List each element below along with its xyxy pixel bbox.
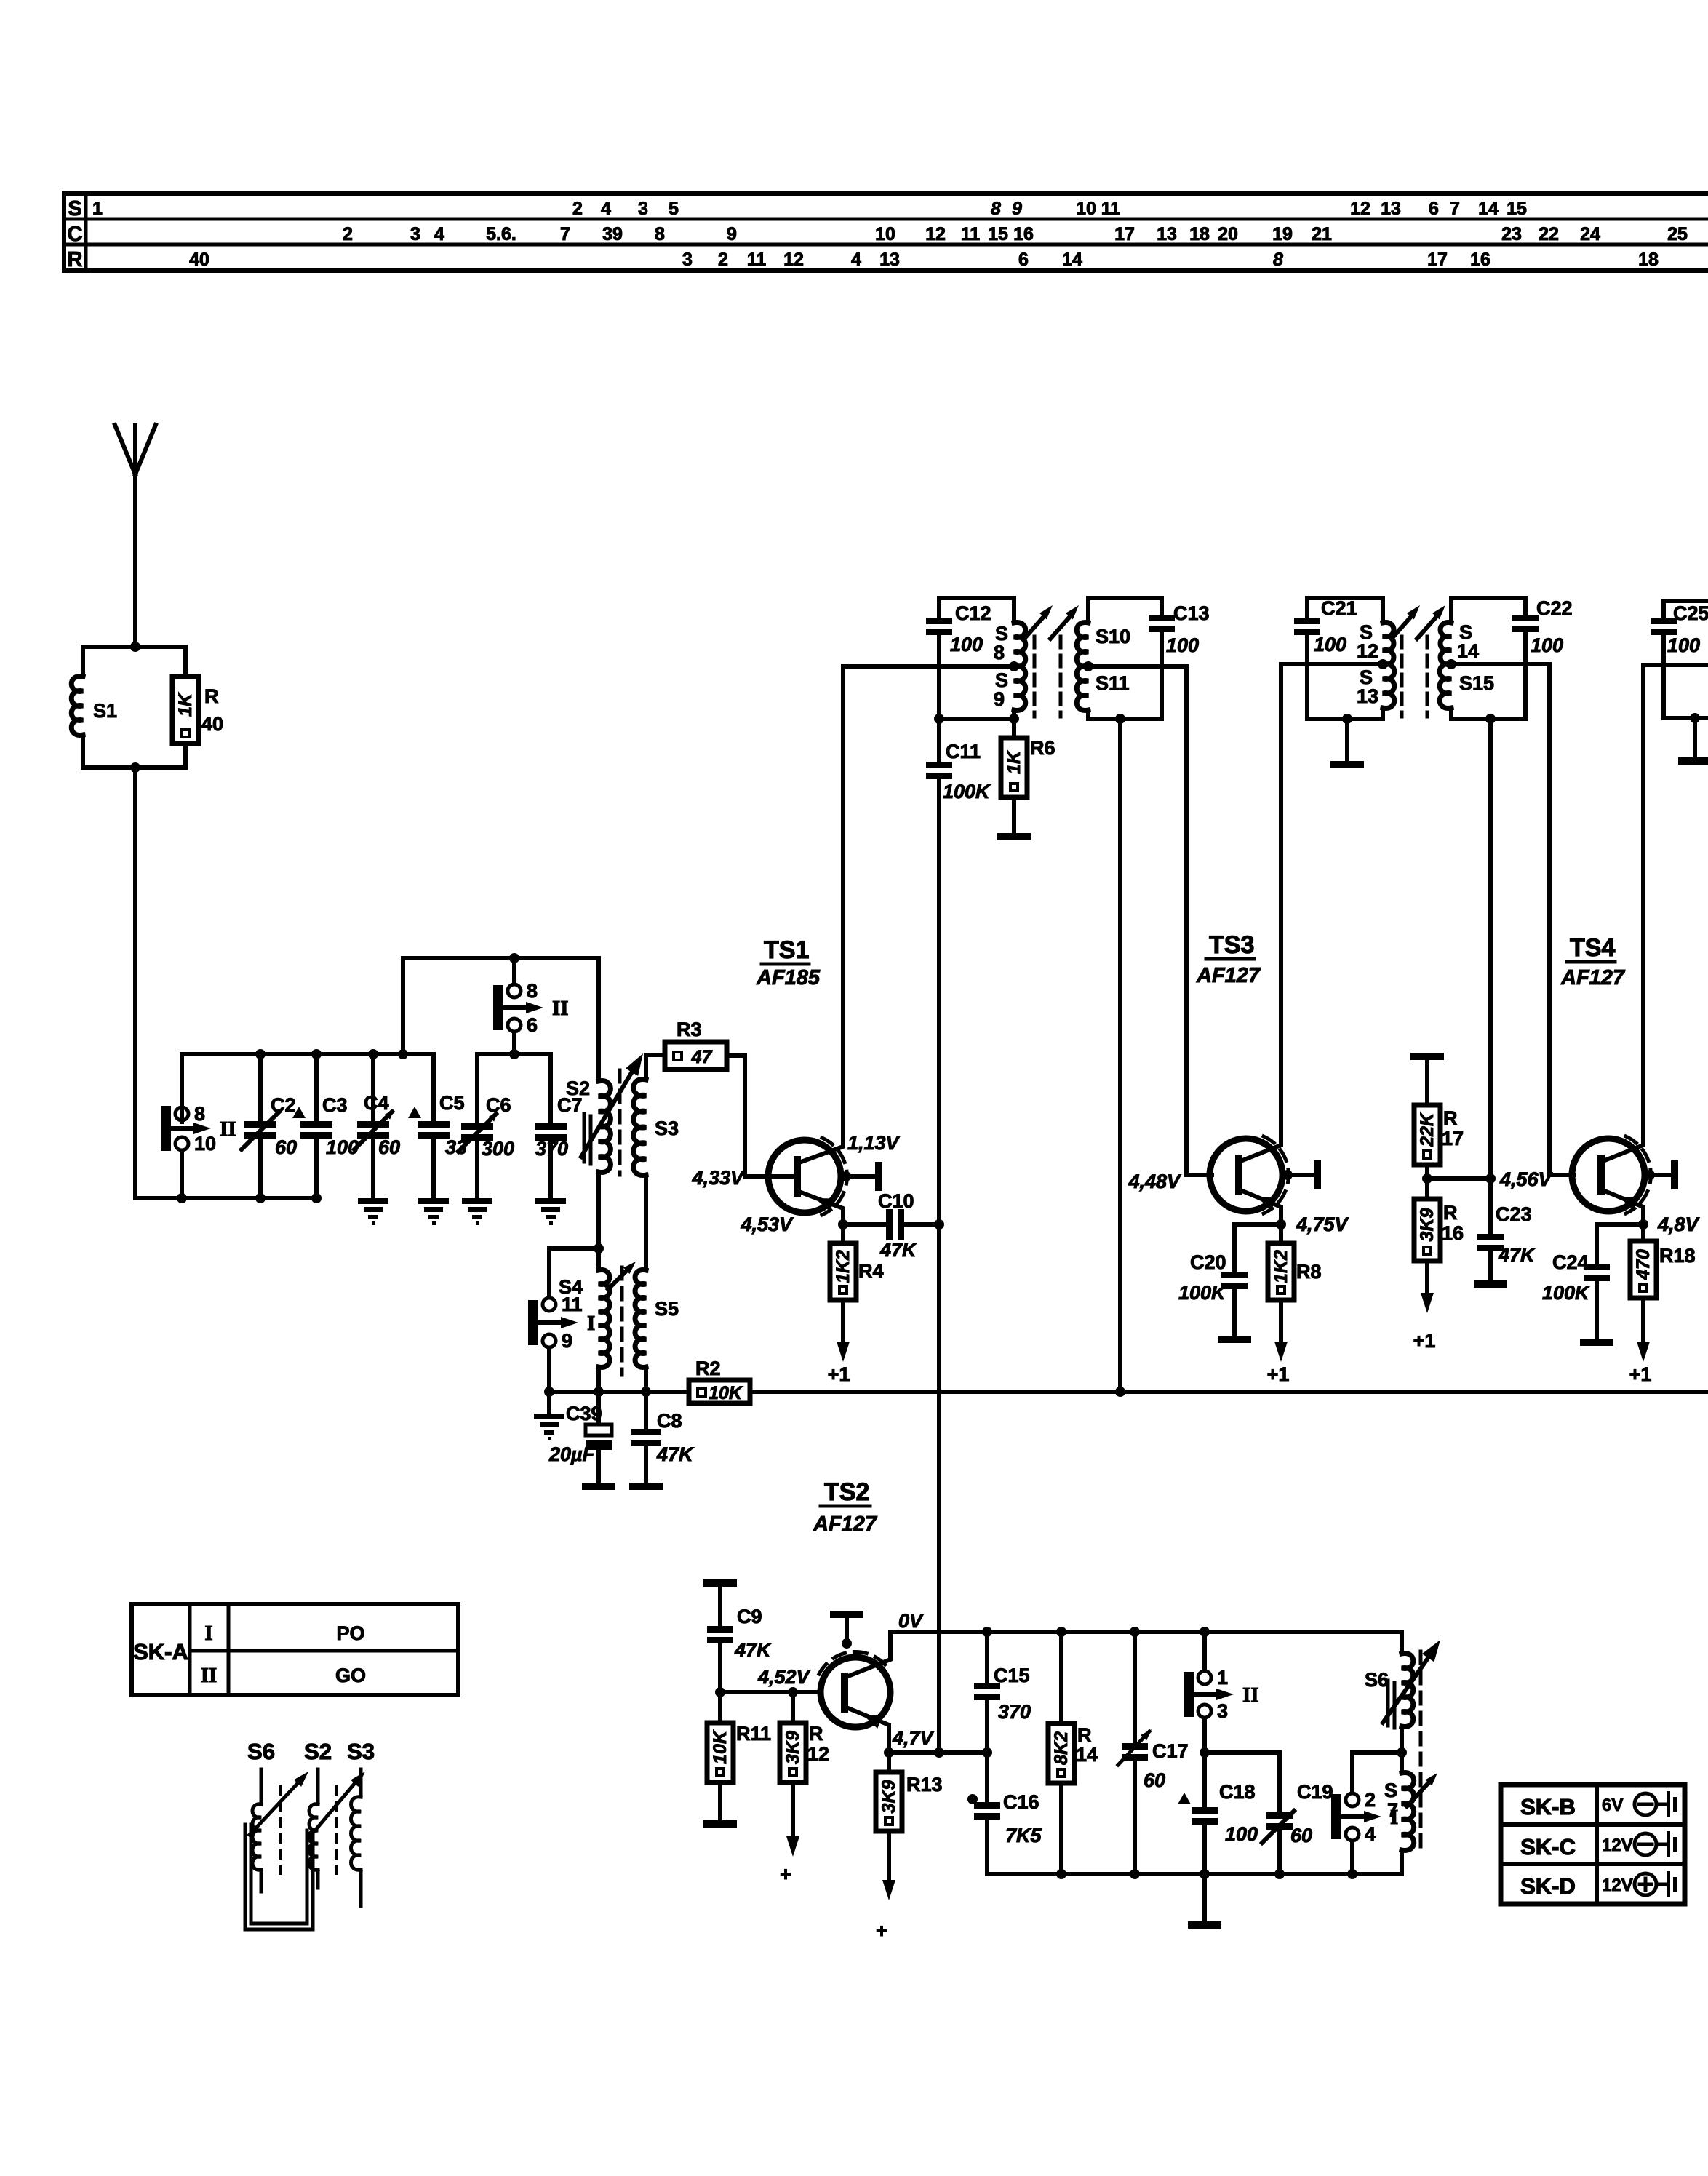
wire tap to TS3 collector	[1281, 662, 1383, 666]
switch SK-A contacts 2/4 (I)	[1331, 1794, 1341, 1839]
svg-text:47K: 47K	[656, 1443, 695, 1465]
svg-text:C24: C24	[1552, 1251, 1589, 1273]
svg-text:GO: GO	[335, 1665, 366, 1686]
svg-text:4: 4	[434, 224, 444, 244]
TS3 collector	[1239, 664, 1281, 1162]
node S14/S15 tap	[1446, 659, 1456, 669]
coil S2	[596, 958, 601, 1081]
svg-text:5: 5	[669, 199, 679, 219]
node C16 top	[982, 1747, 992, 1758]
svg-text:12: 12	[925, 224, 946, 244]
node bus-S11 junction	[1115, 1387, 1125, 1397]
svg-text:AF185: AF185	[756, 966, 821, 989]
gang coil S6	[260, 1769, 263, 1804]
svg-text:4,48V: 4,48V	[1128, 1171, 1181, 1192]
svg-text:S3: S3	[347, 1739, 375, 1764]
svg-text:60: 60	[378, 1136, 400, 1158]
node ground junction 9	[544, 1387, 554, 1397]
wire emitter node	[889, 1750, 987, 1755]
svg-text:1K2: 1K2	[833, 1250, 853, 1283]
gang arrow S2	[311, 1780, 358, 1835]
ground under C4	[358, 1198, 388, 1204]
capacitor C13	[1160, 598, 1164, 615]
svg-text:7: 7	[560, 224, 570, 244]
capacitor C22	[1523, 598, 1528, 615]
svg-text:16: 16	[1442, 1222, 1464, 1244]
svg-text:4,8V: 4,8V	[1657, 1213, 1700, 1235]
wire IF2 secondary top	[1451, 596, 1525, 600]
svg-text:5.6.: 5.6.	[486, 224, 516, 244]
node C15 top	[982, 1627, 992, 1637]
coil S10	[1086, 598, 1090, 623]
IF2 core dashed	[1400, 637, 1404, 717]
svg-text:+1: +1	[1267, 1363, 1290, 1385]
node S11 bottom junction	[1115, 714, 1125, 724]
resistor R6	[1012, 719, 1016, 738]
svg-text:25: 25	[1667, 224, 1688, 244]
arrow through S6	[1383, 1653, 1432, 1723]
chassis under C18	[1202, 1874, 1207, 1921]
wire IF1 primary bottom	[939, 717, 1014, 721]
wire IF3 bottom	[1664, 716, 1708, 720]
svg-text:8: 8	[991, 199, 1001, 219]
wire to C23	[1427, 1176, 1490, 1181]
node S8/S9 tap	[1009, 661, 1019, 671]
node R6 top	[1009, 714, 1019, 724]
svg-text:PO: PO	[336, 1622, 364, 1644]
svg-text:R: R	[809, 1723, 823, 1745]
svg-text:11: 11	[961, 224, 981, 244]
svg-text:2: 2	[343, 224, 353, 244]
svg-text:S11: S11	[1096, 672, 1130, 694]
node C17 top	[1130, 1627, 1140, 1637]
svg-text:TS1: TS1	[764, 936, 809, 964]
node switch1 top	[1200, 1627, 1210, 1637]
capacitor C25	[1661, 601, 1666, 618]
svg-text:10: 10	[1076, 199, 1096, 219]
svg-text:S3: S3	[655, 1117, 679, 1139]
coil S1	[71, 677, 83, 736]
svg-text:8: 8	[527, 980, 538, 1002]
coil S7	[1402, 1773, 1414, 1851]
svg-text:23: 23	[1501, 224, 1522, 244]
svg-text:40: 40	[201, 713, 223, 735]
svg-text:C8: C8	[657, 1410, 682, 1432]
svg-text:R: R	[68, 248, 83, 271]
svg-text:I: I	[204, 1622, 212, 1645]
svg-text:15: 15	[1507, 199, 1527, 219]
svg-text:16: 16	[1013, 224, 1034, 244]
svg-text:C25: C25	[1673, 602, 1708, 624]
svg-text:39: 39	[602, 224, 623, 244]
svg-text:TS4: TS4	[1570, 934, 1615, 962]
svg-text:AF127: AF127	[1196, 964, 1261, 987]
wire IF1 secondary bottom	[1088, 717, 1162, 721]
transistor TS1	[768, 1140, 841, 1213]
svg-text:2: 2	[718, 250, 728, 270]
coil S4	[596, 1248, 601, 1270]
node IF2 ground tap	[1342, 714, 1352, 724]
svg-text:47: 47	[691, 1047, 713, 1067]
svg-text:12: 12	[783, 250, 804, 270]
node switch3 bottom	[1200, 1747, 1210, 1758]
switch SK-A contacts 11/9 (I)	[528, 1300, 538, 1345]
svg-text:I: I	[587, 1312, 595, 1335]
node IF3 ground tap	[1690, 713, 1700, 723]
coil S8	[1012, 598, 1016, 623]
svg-text:0V: 0V	[898, 1610, 924, 1632]
svg-text:S1: S1	[93, 700, 117, 722]
svg-text:C9: C9	[737, 1606, 762, 1627]
svg-text:100K: 100K	[943, 781, 991, 802]
svg-text:7: 7	[1450, 199, 1460, 219]
svg-text:6: 6	[527, 1014, 538, 1036]
wire C11 line to TS2 emitter node	[937, 1224, 941, 1753]
svg-text:AF127: AF127	[1560, 966, 1626, 989]
component location table	[64, 191, 1708, 196]
svg-text:II: II	[201, 1664, 218, 1687]
table SK-B/C/D	[1501, 1785, 1685, 1904]
svg-text:40: 40	[189, 250, 209, 270]
node C10 right junction	[934, 1219, 944, 1230]
svg-text:C6: C6	[486, 1094, 511, 1116]
svg-text:14: 14	[1062, 250, 1082, 270]
svg-text:60: 60	[1144, 1769, 1165, 1791]
svg-text:II: II	[552, 997, 569, 1020]
capacitor C6	[475, 1054, 479, 1123]
svg-text:22K: 22K	[1417, 1112, 1437, 1147]
capacitor C3	[314, 1054, 319, 1121]
wire tap to TS1 collector	[843, 664, 1014, 669]
svg-text:100K: 100K	[1178, 1282, 1227, 1304]
wire S11 bottom to +1 bus	[1118, 719, 1122, 1392]
svg-text:C11: C11	[946, 741, 981, 762]
svg-text:R: R	[1077, 1724, 1092, 1746]
wire 0V line	[890, 1630, 1402, 1634]
+1 arrow under R4	[841, 1300, 845, 1347]
svg-text:R4: R4	[858, 1260, 884, 1282]
node TS3 emitter junction	[1276, 1219, 1286, 1230]
coil S9	[1014, 666, 1026, 711]
coil S15	[1440, 664, 1451, 709]
node S4 bottom junction	[594, 1387, 604, 1397]
TS3 emitter	[1239, 1189, 1281, 1224]
TS1 collector	[797, 666, 843, 1163]
svg-text:3K9: 3K9	[783, 1731, 803, 1764]
node TS1 emitter junction	[838, 1219, 848, 1230]
svg-text:+: +	[876, 1920, 887, 1942]
svg-text:C3: C3	[322, 1094, 348, 1116]
svg-text:11: 11	[747, 250, 767, 270]
wire IF1 secondary top	[1088, 596, 1162, 600]
svg-text:C16: C16	[1003, 1791, 1039, 1813]
wire +1 bus	[750, 1390, 1708, 1394]
node S12/S13 tap	[1378, 659, 1388, 669]
svg-text:SK-B: SK-B	[1520, 1794, 1576, 1820]
wire oscillator bottom bus	[987, 1872, 1402, 1876]
svg-text:SK-A: SK-A	[133, 1639, 188, 1665]
transistor TS3	[1186, 1173, 1212, 1177]
svg-text:13: 13	[1381, 199, 1401, 219]
antenna	[133, 426, 137, 647]
svg-text:4: 4	[851, 250, 861, 270]
wire front-end bottom bus	[135, 1196, 316, 1200]
+ arrow under R12	[791, 1782, 795, 1842]
wire S15 bottom to C23	[1488, 719, 1493, 1179]
svg-text:S10: S10	[1096, 626, 1130, 647]
TS1 shield chassis	[841, 1171, 851, 1181]
svg-text:4: 4	[1365, 1823, 1376, 1845]
capacitor C17	[1133, 1632, 1137, 1743]
svg-text:3: 3	[1217, 1700, 1228, 1722]
core of S6	[1386, 1681, 1390, 1726]
node R17/R16 junction	[1425, 1165, 1429, 1199]
chassis above C9	[703, 1579, 737, 1587]
wire junction to switch 11	[549, 1248, 599, 1296]
transistor TS2	[821, 1657, 890, 1727]
svg-text:17: 17	[1114, 224, 1135, 244]
svg-text:10: 10	[194, 1133, 216, 1155]
svg-text:4,53V: 4,53V	[740, 1213, 794, 1235]
svg-text:S5: S5	[655, 1298, 679, 1320]
TS3 shield chassis	[1282, 1170, 1293, 1180]
switch SK-A contacts 8/6 (II)	[493, 985, 503, 1030]
svg-text:12: 12	[807, 1743, 829, 1765]
resistor R13	[887, 1753, 891, 1772]
svg-text:S4: S4	[559, 1276, 583, 1298]
svg-text:21: 21	[1312, 224, 1332, 244]
capacitor C2	[258, 1054, 263, 1121]
svg-text:S6: S6	[247, 1739, 275, 1764]
svg-text:100: 100	[950, 634, 983, 655]
gang coil S3	[359, 1769, 363, 1797]
resistor R2	[646, 1390, 689, 1394]
TS2 shield dashed arc	[819, 1651, 887, 1674]
svg-text:3: 3	[638, 199, 648, 219]
svg-text:4: 4	[601, 199, 611, 219]
svg-text:8: 8	[194, 1103, 205, 1125]
capacitor C11	[937, 719, 941, 762]
svg-text:C23: C23	[1496, 1203, 1532, 1225]
coil S5	[635, 1270, 646, 1368]
svg-text:7K5: 7K5	[1005, 1825, 1042, 1846]
svg-text:R: R	[1443, 1107, 1458, 1129]
svg-text:C: C	[68, 223, 83, 246]
capacitor C15	[985, 1632, 989, 1683]
svg-text:370: 370	[535, 1138, 568, 1160]
capacitor C5	[431, 1054, 436, 1121]
svg-text:17: 17	[1442, 1128, 1464, 1149]
svg-text:S: S	[1384, 1780, 1397, 1801]
svg-text:7: 7	[1387, 1799, 1398, 1821]
ground under C6	[462, 1198, 492, 1204]
svg-text:9: 9	[994, 688, 1005, 710]
wire y1913 left segment	[549, 1390, 646, 1394]
node S15 bottom junction	[1485, 714, 1496, 724]
switch SK-A contacts 1/3 (II)	[1184, 1672, 1194, 1717]
svg-text:AF127: AF127	[813, 1513, 878, 1536]
wire S1 loop	[83, 645, 185, 649]
svg-text:R13: R13	[906, 1774, 943, 1796]
wire riser to upper line	[401, 958, 405, 1054]
svg-text:16: 16	[1470, 250, 1490, 270]
wire IF3 top	[1664, 599, 1708, 603]
arrow through S4/S5	[608, 1267, 630, 1289]
TS4 emitter	[1601, 1189, 1643, 1224]
core S4/S5 dashed	[620, 1267, 624, 1375]
svg-text:C10: C10	[878, 1190, 914, 1212]
svg-text:+1: +1	[1413, 1330, 1436, 1352]
svg-text:1K: 1K	[1004, 749, 1024, 774]
svg-text:C18: C18	[1219, 1781, 1256, 1803]
svg-text:R6: R6	[1030, 737, 1055, 759]
svg-text:17: 17	[1427, 250, 1448, 270]
svg-text:13: 13	[1157, 224, 1177, 244]
svg-text:R18: R18	[1659, 1245, 1696, 1267]
svg-text:SK-C: SK-C	[1520, 1834, 1576, 1860]
TS2 collector	[845, 1632, 890, 1678]
node antenna-S1 junction	[130, 642, 140, 652]
svg-text:C15: C15	[994, 1665, 1030, 1686]
wire IF2 secondary bottom	[1451, 717, 1525, 721]
svg-text:C21: C21	[1321, 597, 1357, 619]
svg-text:3K9: 3K9	[1417, 1208, 1437, 1241]
svg-text:8: 8	[1273, 250, 1283, 270]
svg-text:1K2: 1K2	[1271, 1250, 1291, 1283]
svg-text:TS2: TS2	[824, 1478, 869, 1506]
svg-text:S2: S2	[304, 1739, 332, 1764]
svg-text:6: 6	[1429, 199, 1439, 219]
svg-text:+1: +1	[1629, 1363, 1652, 1385]
wire switch top to upper line	[512, 958, 516, 983]
svg-text:60: 60	[275, 1136, 297, 1158]
coil S3	[646, 1055, 665, 1080]
TS1 emitter	[797, 1191, 843, 1224]
capacitor C39 electrolytic	[596, 1392, 601, 1424]
svg-text:12V: 12V	[1602, 1836, 1633, 1855]
svg-text:9: 9	[562, 1330, 572, 1352]
TS4 shield chassis	[1645, 1170, 1655, 1180]
chassis above R17	[1410, 1053, 1444, 1060]
svg-text:4,7V: 4,7V	[892, 1727, 935, 1749]
svg-text:100: 100	[1225, 1823, 1258, 1845]
svg-text:4,33V: 4,33V	[691, 1167, 745, 1189]
capacitor C20	[1234, 1224, 1281, 1272]
node TS4 emitter junction	[1638, 1219, 1648, 1230]
svg-text:+: +	[780, 1863, 791, 1885]
svg-text:C12: C12	[955, 602, 991, 624]
svg-text:100: 100	[1667, 634, 1700, 656]
capacitor C10	[843, 1222, 886, 1227]
svg-text:10K: 10K	[709, 1383, 743, 1403]
svg-text:4,75V: 4,75V	[1296, 1213, 1349, 1235]
svg-text:C20: C20	[1190, 1251, 1226, 1273]
wire antenna to front-end bus	[133, 768, 137, 1198]
resistor R12	[791, 1692, 795, 1723]
node S4 top junction	[594, 1243, 604, 1254]
svg-text:R11: R11	[736, 1723, 771, 1745]
svg-text:C22: C22	[1536, 597, 1573, 619]
svg-text:24: 24	[1580, 224, 1600, 244]
svg-text:R3: R3	[677, 1019, 702, 1040]
node S10/S11 tap	[1083, 661, 1093, 671]
svg-text:14: 14	[1076, 1744, 1098, 1766]
capacitor C18	[1202, 1753, 1207, 1807]
svg-text:60: 60	[1290, 1825, 1312, 1846]
resistor R11	[718, 1692, 722, 1723]
svg-text:1: 1	[1217, 1667, 1228, 1689]
coil S14	[1449, 598, 1453, 623]
svg-text:3: 3	[682, 250, 693, 270]
capacitor C23	[1488, 1179, 1493, 1234]
svg-text:47K: 47K	[1498, 1244, 1536, 1266]
svg-text:100: 100	[1531, 634, 1563, 656]
svg-text:R8: R8	[1296, 1261, 1322, 1283]
svg-text:C39: C39	[566, 1403, 602, 1424]
svg-text:22: 22	[1539, 224, 1559, 244]
node S1 bottom junction	[130, 762, 140, 773]
svg-text:100: 100	[1166, 634, 1199, 656]
coil S6	[1400, 1632, 1404, 1654]
wire IF2 primary bottom	[1307, 717, 1383, 721]
wire tap to TS4 base	[1451, 664, 1549, 1175]
capacitor C16	[985, 1753, 989, 1802]
wire C6-C7 top segment	[477, 1052, 551, 1056]
svg-text:II: II	[1242, 1683, 1259, 1707]
svg-text:S6: S6	[1365, 1669, 1389, 1691]
switch SK-A contacts 8/10 (II)	[161, 1106, 171, 1151]
svg-text:18: 18	[1638, 250, 1659, 270]
svg-text:19: 19	[1272, 224, 1293, 244]
svg-text:6: 6	[1018, 250, 1029, 270]
node S5 bottom junction	[641, 1387, 651, 1397]
IF2 tuning arrows	[1392, 614, 1413, 639]
svg-text:14: 14	[1457, 640, 1479, 662]
resistor R40	[172, 677, 199, 744]
svg-text:370: 370	[998, 1701, 1031, 1723]
svg-text:TS3: TS3	[1209, 931, 1254, 959]
node R12 junction	[788, 1687, 798, 1697]
IF1 tuning arrows	[1024, 614, 1046, 639]
+ arrow under R13	[887, 1831, 891, 1886]
node C11 top	[934, 714, 944, 724]
resistor R3	[665, 1042, 727, 1069]
svg-text:9: 9	[727, 224, 737, 244]
node S6/S7 tap	[1397, 1747, 1407, 1758]
gang link bracket	[245, 1825, 313, 1929]
svg-text:14: 14	[1478, 199, 1499, 219]
core of S2	[583, 1114, 586, 1162]
node TS2 emitter node	[884, 1747, 894, 1758]
wire tap to TS3 base	[1088, 666, 1186, 1175]
+1 arrow under R16	[1425, 1261, 1429, 1299]
ground under C5	[418, 1198, 449, 1204]
resistor R4	[841, 1224, 845, 1243]
svg-text:15: 15	[988, 224, 1008, 244]
node C9/R11 junction	[715, 1687, 725, 1697]
capacitor C21	[1305, 598, 1309, 618]
coil S13	[1383, 664, 1394, 709]
svg-text:S: S	[68, 197, 81, 220]
svg-text:SK-D: SK-D	[1520, 1873, 1576, 1899]
resistor R14	[1059, 1632, 1063, 1723]
TS4 shield dashed arc	[1626, 1136, 1651, 1213]
svg-text:1,13V: 1,13V	[847, 1132, 901, 1154]
svg-text:10: 10	[875, 224, 895, 244]
svg-text:3K9: 3K9	[879, 1780, 899, 1813]
svg-text:13: 13	[1357, 685, 1378, 707]
TS1 shield dashed arc	[822, 1138, 847, 1215]
